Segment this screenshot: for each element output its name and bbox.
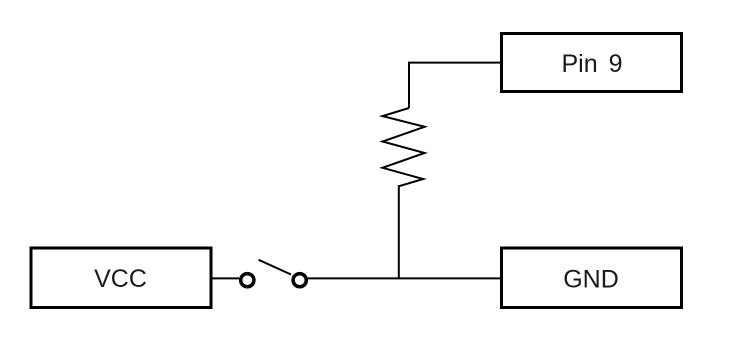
node Pin 9 box	[502, 34, 682, 92]
power VCC box	[31, 248, 211, 308]
switch lever	[259, 260, 291, 275]
svg-text:VCC: VCC	[94, 265, 147, 293]
wire resistor bottom lead to bottom net	[398, 185, 400, 278]
wire switch right terminal to GND box (junction with resistor)	[308, 277, 500, 279]
svg-text:Pin 9: Pin 9	[562, 50, 623, 78]
switch right terminal circle	[293, 274, 306, 287]
ground GND box	[502, 248, 682, 308]
wire VCC box to switch left terminal	[213, 277, 240, 279]
resistor	[383, 108, 425, 186]
svg-text:GND: GND	[563, 266, 619, 294]
wire from Pin 9 box to resistor top	[409, 63, 500, 108]
switch left terminal circle	[241, 274, 254, 287]
